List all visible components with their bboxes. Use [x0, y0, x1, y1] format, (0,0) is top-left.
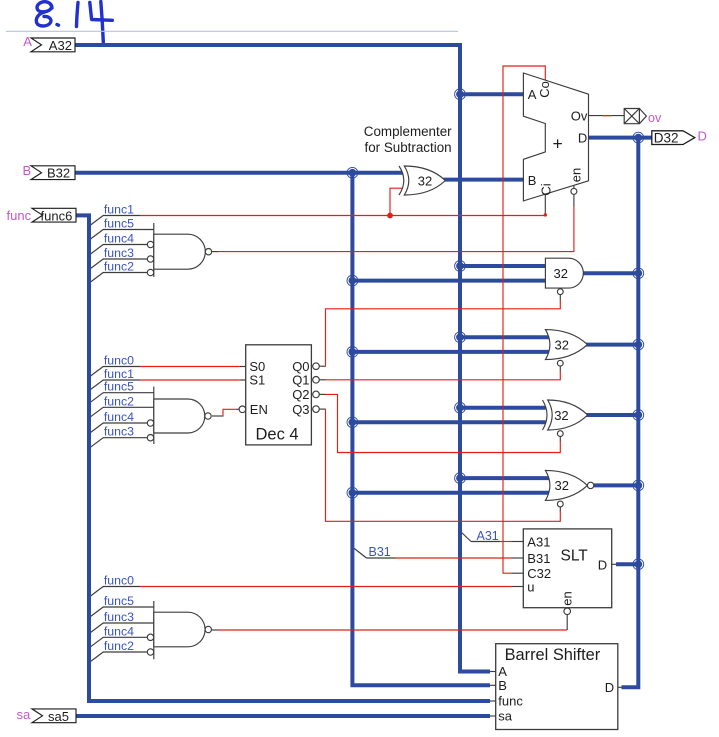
SLT box	[523, 529, 611, 608]
junction A bus / XOR-32	[455, 402, 466, 413]
svg-text:func4: func4	[104, 410, 134, 424]
pin stubs 32-gate enables	[559, 295, 561, 301]
wire AND-32 input from A bus	[460, 264, 547, 268]
bus ripper tick at y=586.5	[89, 587, 103, 598]
input port B (B32 tag)	[31, 166, 75, 180]
wire net func0 (group2) to decoder S0	[140, 366, 240, 368]
wire func3 label segment	[103, 437, 147, 439]
svg-text:ov: ov	[648, 111, 662, 125]
complementer XOR gate (32)	[404, 166, 445, 195]
svg-text:B31: B31	[369, 545, 391, 559]
bus ripper tick at y=366.5	[89, 367, 103, 378]
wire func2 label segment	[103, 651, 147, 653]
junction A bus / AND-32	[455, 261, 466, 272]
decoder Q1 bubble	[313, 377, 320, 384]
bus ripper tick at y=244.5	[89, 245, 103, 256]
svg-text:B: B	[528, 173, 537, 188]
wire func5 label segment	[103, 229, 154, 231]
svg-text:u: u	[527, 579, 534, 594]
wire A bus (A32 from port to barrel shifter A)	[75, 45, 490, 672]
wire NAND G3 output stub	[212, 629, 219, 631]
wire NAND G1 output stub	[212, 251, 219, 253]
svg-text:+: +	[553, 134, 563, 154]
svg-text:func2: func2	[104, 394, 134, 408]
svg-text:D32: D32	[654, 130, 679, 145]
junction D bus / SLT output	[633, 559, 644, 570]
svg-text:B: B	[498, 678, 507, 693]
wire complementer XOR output to adder B	[442, 178, 526, 182]
wire func4 label segment	[103, 422, 147, 424]
wire func4 label segment	[103, 636, 147, 638]
decoder Q3 bubble	[313, 406, 320, 413]
svg-text:func: func	[7, 208, 32, 223]
svg-text:SLT: SLT	[561, 548, 589, 565]
wire net adder-enable (NAND G1 output to adder en)	[218, 207, 574, 252]
wire func2 label segment	[103, 406, 154, 408]
junction D bus / OR-32 output	[633, 339, 644, 350]
svg-text:func3: func3	[104, 246, 134, 260]
faint scan line artifact	[6, 30, 458, 32]
pin stubs barrel shifter inputs A B func sa	[490, 671, 496, 673]
bus ripper tick at y=652.0	[89, 652, 103, 663]
wire net func0 (group3) to SLT u	[140, 586, 512, 588]
svg-text:func: func	[498, 694, 523, 709]
red wire-end mark at adder Ci	[544, 213, 547, 216]
wire OR-32 input from A bus	[460, 335, 550, 339]
wire func3 label segment	[103, 258, 147, 260]
svg-text:func3: func3	[104, 610, 134, 624]
SLT en bubble	[564, 608, 571, 615]
input port A (A32 tag)	[31, 38, 75, 52]
svg-text:Co: Co	[537, 81, 552, 98]
svg-text:B32: B32	[47, 166, 70, 181]
wire net Q2 to XOR-32 en	[326, 394, 561, 452]
XOR-32 gate	[548, 400, 588, 430]
svg-text:func2: func2	[104, 639, 134, 653]
wire net B31 red segment	[395, 557, 512, 559]
wire func1 label segment	[103, 215, 140, 217]
wire AND-32 output to D bus	[580, 271, 638, 275]
wire net func1 (group2) to decoder S1	[140, 379, 240, 381]
wire net Q1 to OR-32 en	[326, 371, 561, 380]
wire B bus (B32 from port down to barrel shifter B)	[75, 173, 490, 686]
bus ripper tick at y=607.0	[89, 607, 103, 618]
bus ripper tick at y=637.3	[89, 637, 103, 648]
wire AND-32 input from B bus	[352, 279, 546, 283]
bus ripper tick at y=623.0	[89, 623, 103, 634]
wire net NAND G2 output to decoder EN	[223, 409, 236, 416]
svg-text:Dec 4: Dec 4	[256, 426, 299, 444]
svg-text:32: 32	[418, 174, 432, 189]
NOR-32 output bubble	[587, 482, 593, 488]
overflow indicator box (crossed square with point)	[624, 109, 646, 124]
junction A bus / NOR-32	[455, 473, 466, 484]
svg-text:func3: func3	[104, 425, 134, 439]
svg-text:B: B	[23, 163, 32, 178]
wire func2 label segment	[103, 272, 147, 274]
wire func4 label segment	[103, 244, 147, 246]
svg-text:D: D	[598, 557, 607, 572]
wire NAND G2 output stub	[212, 415, 224, 417]
output port D (D32 tag)	[652, 131, 695, 145]
wire sa bus (sa5 port to barrel shifter sa)	[76, 714, 490, 718]
svg-text:EN: EN	[250, 402, 268, 417]
bus ripper B31 on B bus	[353, 548, 367, 559]
svg-text:func4: func4	[104, 624, 134, 638]
OR-32 gate	[545, 330, 587, 360]
NAND gate G2 (decoder enable decode)	[153, 387, 155, 445]
pin stub adder en	[573, 184, 575, 188]
wire func1 label segment	[103, 379, 140, 381]
wire net Q0 to AND-32 en	[326, 300, 561, 366]
svg-text:en: en	[569, 168, 584, 182]
NAND gate G1 (adder enable decode)	[153, 223, 155, 277]
wire OR-32 output to D bus	[585, 343, 638, 347]
svg-text:func5: func5	[104, 380, 134, 394]
pin stubs decoder S0 S1 EN	[240, 366, 246, 368]
adder U1 body	[523, 73, 588, 201]
handwritten annotation "8.14"	[36, 2, 112, 43]
wire B31 label segment	[367, 557, 396, 559]
svg-text:A31: A31	[527, 534, 550, 549]
junction B bus / OR-32	[347, 347, 358, 358]
svg-text:32: 32	[555, 478, 569, 493]
junction A bus / OR-32	[455, 332, 466, 343]
svg-text:A31: A31	[477, 529, 499, 543]
junction B bus / XOR-32	[347, 417, 358, 428]
svg-text:A32: A32	[49, 38, 72, 53]
wire D bus (down to barrel shifter D)	[622, 138, 639, 688]
wire XOR-32 output to D bus	[586, 413, 639, 417]
bus ripper tick at y=215.5	[89, 216, 103, 227]
junction A bus / adder A	[455, 89, 466, 100]
svg-text:B31: B31	[527, 551, 550, 566]
junction B bus / NOR-32	[347, 487, 358, 498]
svg-text:A: A	[23, 34, 32, 49]
wire func3 label segment	[103, 622, 154, 624]
junction D bus / NOR-32 output	[633, 480, 644, 491]
pin stubs decoder Q0-Q3	[319, 365, 326, 367]
wire net func1 (port func bit1 to adder Ci and complementer XOR)	[140, 188, 545, 215]
svg-text:A: A	[528, 87, 537, 102]
adder en bubble	[571, 188, 577, 194]
svg-text:func5: func5	[104, 594, 134, 608]
wire func bus (func6 from port down to barrel shifter func)	[76, 215, 490, 701]
decoder EN bubble	[239, 406, 246, 413]
AND-32 en bubble	[557, 289, 563, 295]
decoder Dec 4 box	[246, 345, 312, 445]
svg-text:Ci: Ci	[538, 183, 553, 195]
svg-text:func0: func0	[104, 574, 134, 588]
bus ripper tick at y=272.5	[89, 273, 103, 284]
OR-32 en bubble	[557, 360, 563, 366]
wire XOR-32 input from A bus	[460, 406, 546, 410]
svg-text:func4: func4	[104, 232, 134, 246]
junction B bus / XOR complementer	[347, 167, 358, 178]
wire XOR-32 input from B bus	[352, 420, 545, 424]
wire net NAND G3 output to SLT en	[218, 629, 567, 631]
wire net Q3 to NOR-32 en	[326, 409, 561, 521]
junction D bus / AND-32 output	[633, 268, 644, 279]
bus ripper tick at y=437.7	[89, 438, 103, 449]
input port func (func6 tag)	[32, 208, 76, 222]
wire OR-32 input from B bus	[352, 350, 549, 354]
NOR-32 gate	[545, 470, 587, 500]
junction D bus / adder D and D32 tag	[633, 132, 644, 143]
svg-text:32: 32	[554, 266, 568, 281]
svg-text:sa: sa	[17, 707, 32, 722]
svg-text:32: 32	[555, 337, 569, 352]
bus ripper tick at y=229.5	[89, 230, 103, 241]
wire func5 label segment	[103, 606, 154, 608]
svg-text:S1: S1	[249, 373, 265, 388]
bus ripper tick at y=380.0	[89, 380, 103, 391]
bus ripper tick at y=392.7	[89, 393, 103, 404]
bus ripper tick at y=259.0	[89, 259, 103, 270]
wire adder D output to D32 tag	[589, 136, 652, 140]
decoder Q2 bubble	[313, 391, 320, 398]
svg-text:Complementer: Complementer	[364, 124, 452, 139]
pin stub SLT en	[566, 615, 568, 630]
svg-text:en: en	[560, 591, 575, 605]
svg-text:Barrel Shifter: Barrel Shifter	[505, 646, 601, 664]
svg-text:sa: sa	[498, 709, 513, 724]
input port sa (sa5 tag)	[32, 709, 76, 723]
bus ripper tick at y=407.3	[89, 407, 103, 418]
svg-text:func1: func1	[104, 203, 134, 217]
svg-text:D: D	[605, 680, 614, 695]
svg-text:Q3: Q3	[292, 402, 309, 417]
barrel shifter box	[496, 644, 618, 730]
wire B to complementer XOR input	[352, 171, 402, 175]
junction B bus / AND-32	[347, 275, 358, 286]
wire func0 label segment	[103, 586, 140, 588]
svg-text:Q2: Q2	[292, 387, 309, 402]
wire NOR-32 output to D bus	[594, 483, 639, 487]
red junction func1 / XOR complementer branch	[387, 213, 393, 219]
wire NOR-32 input from B bus	[352, 491, 549, 495]
pin stub SLT D output	[612, 563, 617, 565]
bus ripper A31 on A bus	[460, 531, 472, 542]
wire adder Ov lead	[589, 115, 625, 117]
svg-text:32: 32	[554, 408, 568, 423]
pin stub adder Ci	[544, 194, 546, 216]
svg-text:Ov: Ov	[571, 108, 588, 123]
svg-text:D: D	[578, 131, 587, 146]
wire NOR-32 input from A bus	[460, 476, 550, 480]
svg-text:for Subtraction: for Subtraction	[365, 140, 452, 155]
wire net A31 red segment	[500, 541, 512, 543]
pin stubs SLT inputs A31 B31 C32 u	[512, 541, 524, 543]
wire SLT D output to D bus	[616, 562, 638, 566]
NAND gate G3 (SLT enable decode)	[153, 601, 155, 659]
svg-text:D: D	[698, 129, 707, 144]
svg-text:A: A	[498, 664, 507, 679]
pin stub barrel shifter D output	[618, 686, 623, 688]
svg-text:func6: func6	[41, 208, 73, 223]
wire net Co to SLT C32 (adder carry-out)	[503, 66, 545, 573]
bus ripper tick at y=423.0	[89, 423, 103, 434]
wire func5 label segment	[103, 392, 154, 394]
svg-text:func5: func5	[104, 217, 134, 231]
svg-text:func0: func0	[104, 354, 134, 368]
svg-text:Q1: Q1	[292, 373, 309, 388]
svg-text:func2: func2	[104, 260, 134, 274]
NOR-32 en bubble	[557, 501, 563, 507]
decoder Q0 bubble	[313, 363, 320, 370]
svg-text:sa5: sa5	[48, 709, 69, 724]
red mark on Ov lead	[602, 115, 612, 117]
wire func0 label segment	[103, 366, 140, 368]
XOR-32 en bubble	[557, 431, 563, 437]
wire adder A input	[460, 92, 526, 96]
junction D bus / XOR-32 output	[633, 410, 644, 421]
wire A31 label segment	[471, 541, 500, 543]
AND-32 gate	[545, 258, 583, 288]
